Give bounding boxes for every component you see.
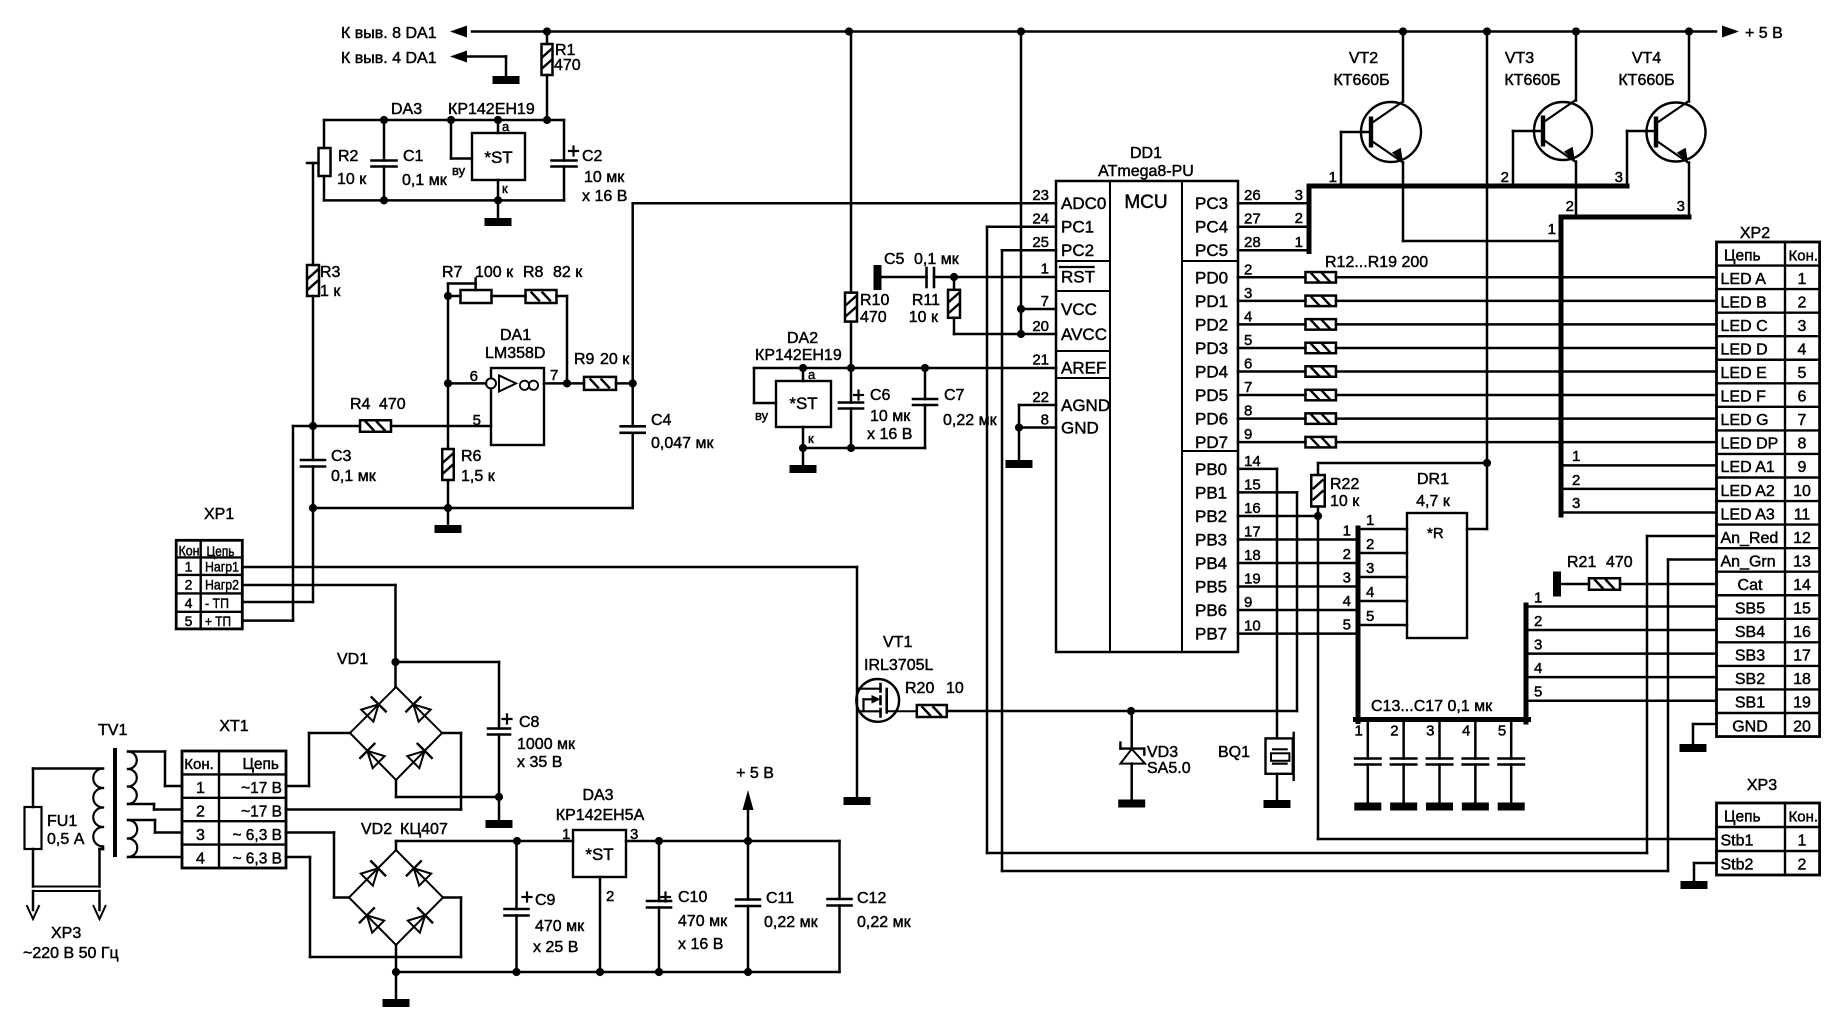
wire ADC0 sense line <box>633 203 1056 383</box>
svg-text:a: a <box>502 119 510 134</box>
svg-text:x 35 В: x 35 В <box>517 754 562 771</box>
svg-text:1: 1 <box>1354 723 1362 740</box>
connector XP1 <box>176 506 242 629</box>
svg-text:19: 19 <box>1244 571 1261 588</box>
wire PC1 to An_Red <box>987 227 1717 853</box>
svg-text:VT3: VT3 <box>1505 50 1534 67</box>
svg-text:SB4: SB4 <box>1735 624 1765 641</box>
microcontroller DD1 ATmega8-PU <box>1056 145 1238 652</box>
svg-text:25: 25 <box>1032 234 1049 251</box>
svg-text:9: 9 <box>1798 459 1807 476</box>
capacitor C5 0,1 мк with ground <box>874 251 960 290</box>
svg-text:R20: R20 <box>905 680 934 697</box>
svg-text:100 к: 100 к <box>475 264 514 281</box>
svg-text:AVCC: AVCC <box>1061 325 1107 344</box>
svg-text:4: 4 <box>1798 341 1807 358</box>
svg-text:К выв. 8 DA1: К выв. 8 DA1 <box>341 25 437 42</box>
svg-text:2: 2 <box>185 577 193 593</box>
svg-text:PC2: PC2 <box>1061 241 1094 260</box>
svg-text:R3: R3 <box>320 264 341 281</box>
ground <box>1264 800 1291 808</box>
svg-text:4,7 к: 4,7 к <box>1416 493 1451 510</box>
svg-text:КТ660Б: КТ660Б <box>1333 72 1389 89</box>
svg-text:VD1: VD1 <box>337 651 368 668</box>
svg-text:SB3: SB3 <box>1735 648 1765 665</box>
svg-text:MCU: MCU <box>1124 192 1167 213</box>
svg-text:3: 3 <box>1534 637 1542 654</box>
svg-text:15: 15 <box>1244 476 1261 493</box>
wire DA2 cathode wire <box>799 444 925 452</box>
resistor R16 200 (LED E) <box>1238 366 1717 377</box>
svg-text:An_Grn: An_Grn <box>1721 553 1776 570</box>
svg-text:14: 14 <box>1793 577 1811 594</box>
svg-text:19: 19 <box>1793 695 1811 712</box>
svg-text:к: к <box>502 181 508 196</box>
ground <box>486 797 513 828</box>
svg-text:R12...R19 200: R12...R19 200 <box>1325 254 1428 271</box>
svg-text:C8: C8 <box>519 714 540 731</box>
wire pin 7 <box>544 379 571 387</box>
svg-text:470: 470 <box>860 309 887 326</box>
capacitor C17 0,1 мк <box>1498 722 1524 803</box>
wire PC2 to An_Grn <box>1002 250 1717 871</box>
svg-text:XT1: XT1 <box>219 718 248 735</box>
svg-text:10 к: 10 к <box>909 309 939 326</box>
svg-text:24: 24 <box>1032 211 1049 228</box>
svg-text:- ТП: - ТП <box>205 595 229 611</box>
svg-text:1: 1 <box>1534 590 1542 607</box>
resistor R11 10 к <box>909 277 960 334</box>
capacitor C15 0,1 мк <box>1426 722 1452 803</box>
svg-text:9: 9 <box>1244 426 1252 443</box>
svg-text:~ 6,3 В: ~ 6,3 В <box>232 827 282 844</box>
svg-text:1: 1 <box>1329 169 1337 186</box>
svg-text:ву: ву <box>755 408 769 423</box>
capacitor C12 0,22 мк <box>828 841 912 972</box>
svg-text:Цепь: Цепь <box>1724 247 1761 264</box>
wire node a (top wire of DA3 cell) <box>324 116 564 124</box>
svg-text:PD4: PD4 <box>1195 362 1228 381</box>
svg-text:10 к: 10 к <box>337 171 367 188</box>
wire Stb2 to ground <box>1694 863 1717 881</box>
svg-text:10: 10 <box>1244 618 1261 635</box>
capacitor C2 10 мк x 16 В <box>552 120 628 205</box>
wire VD1 minus output <box>396 780 503 801</box>
svg-text:0,1 мк: 0,1 мк <box>402 172 448 189</box>
svg-text:11: 11 <box>1794 506 1811 523</box>
svg-text:SB2: SB2 <box>1735 671 1765 688</box>
svg-text:x 16 В: x 16 В <box>582 188 627 205</box>
svg-text:28: 28 <box>1244 234 1261 251</box>
svg-text:3: 3 <box>1366 560 1374 577</box>
voltage regulator DA3 КР142ЕН5А <box>556 787 645 972</box>
svg-text:20: 20 <box>1032 318 1049 335</box>
capacitor C1 0,1 мк <box>372 120 448 200</box>
svg-text:0,047 мк: 0,047 мк <box>651 435 714 452</box>
svg-text:1: 1 <box>1295 234 1303 251</box>
ground <box>383 972 410 1007</box>
svg-text:PB5: PB5 <box>1195 578 1227 597</box>
transistor VT4 КТ660Б <box>1615 32 1706 218</box>
capacitor C4 0,047 мк <box>621 383 715 508</box>
svg-text:C6: C6 <box>870 387 891 404</box>
svg-text:10: 10 <box>946 680 964 697</box>
svg-text:к: к <box>808 431 814 446</box>
node VT1 gate net junction <box>1127 707 1135 715</box>
svg-text:10 к: 10 к <box>1330 493 1360 510</box>
svg-text:PD2: PD2 <box>1195 315 1228 334</box>
svg-text:Нагр2: Нагр2 <box>205 577 239 593</box>
svg-text:18: 18 <box>1793 671 1811 688</box>
wire RST line <box>934 273 1056 281</box>
svg-text:4: 4 <box>185 595 193 611</box>
wire AREF reference rail <box>754 364 1056 372</box>
MCU left pin labels <box>1032 187 1110 437</box>
resistor network DR1 4,7 к <box>1407 463 1487 638</box>
svg-text:x 16 В: x 16 В <box>867 426 912 443</box>
svg-text:C10: C10 <box>678 889 707 906</box>
svg-text:10 мк: 10 мк <box>584 169 625 186</box>
svg-text:PC5: PC5 <box>1195 241 1228 260</box>
svg-text:R9: R9 <box>574 351 595 368</box>
svg-text:DA3: DA3 <box>582 787 613 804</box>
svg-text:DA3: DA3 <box>391 101 422 118</box>
svg-text:DR1: DR1 <box>1417 471 1449 488</box>
svg-text:7: 7 <box>1041 293 1049 310</box>
svg-text:Цепь: Цепь <box>242 756 279 773</box>
wire R7/R6 vertical <box>444 296 452 449</box>
svg-text:XP1: XP1 <box>204 506 234 523</box>
resistor R9 20 к <box>567 351 637 390</box>
svg-text:2: 2 <box>1295 210 1303 227</box>
wire +ТП <box>242 426 293 621</box>
svg-text:VT2: VT2 <box>1349 50 1378 67</box>
svg-text:3: 3 <box>1244 285 1252 302</box>
transistor VT1 IRL3705L <box>856 634 933 722</box>
svg-text:Кон.: Кон. <box>1789 809 1819 826</box>
svg-text:C9: C9 <box>535 892 556 909</box>
svg-text:IRL3705L: IRL3705L <box>864 657 933 674</box>
ground <box>485 200 512 226</box>
svg-text:16: 16 <box>1244 500 1261 517</box>
connector XT1 <box>182 718 286 868</box>
wire cathode bottom wire <box>324 196 564 204</box>
svg-text:AREF: AREF <box>1061 359 1106 378</box>
svg-text:22: 22 <box>1032 389 1049 406</box>
svg-text:PD6: PD6 <box>1195 409 1228 428</box>
svg-text:VT1: VT1 <box>883 634 912 651</box>
rectifier bridge VD2 КЦ407 <box>349 821 448 945</box>
wire XT1 pin2 to VD1 <box>286 733 461 810</box>
wire PC5 digit select 1 <box>1238 234 1309 251</box>
capacitor C14 0,1 мк <box>1390 722 1416 803</box>
capacitor C7 0,22 мк <box>913 368 998 448</box>
wire secondary 2 connections <box>128 820 182 857</box>
voltage reference DA3 *ST <box>451 119 525 200</box>
svg-text:~220 В 50 Гц: ~220 В 50 Гц <box>23 945 119 962</box>
capacitor C9 470 мк x 25 В <box>505 841 586 972</box>
resistor R15 200 (LED D) <box>1238 343 1717 354</box>
svg-text:3: 3 <box>1798 318 1807 335</box>
svg-text:ADC0: ADC0 <box>1061 194 1106 213</box>
op-amp DA1 LM358D <box>470 327 559 445</box>
svg-text:2: 2 <box>1566 198 1574 215</box>
svg-text:8: 8 <box>1244 402 1252 419</box>
svg-text:*ST: *ST <box>585 845 613 864</box>
svg-text:6: 6 <box>1798 389 1807 406</box>
resistor R18 200 (LED G) <box>1238 413 1717 424</box>
svg-text:1: 1 <box>1572 448 1580 465</box>
wire XT1 pin4 to VD2 <box>286 857 461 957</box>
svg-text:SB1: SB1 <box>1735 695 1765 712</box>
svg-text:КЦ407: КЦ407 <box>400 821 448 838</box>
svg-text:LED F: LED F <box>1721 389 1767 406</box>
svg-text:5: 5 <box>1244 332 1252 349</box>
svg-text:1,5 к: 1,5 к <box>461 468 496 485</box>
wire XP2 GND to ground <box>1693 724 1717 744</box>
svg-text:КТ660Б: КТ660Б <box>1618 72 1674 89</box>
ground <box>1498 803 1525 811</box>
svg-text:C11: C11 <box>766 890 794 907</box>
svg-text:10 мк: 10 мк <box>870 408 911 425</box>
svg-text:5: 5 <box>1798 365 1807 382</box>
wire digit select group bus <box>1309 186 1627 252</box>
svg-text:Cat: Cat <box>1738 577 1763 594</box>
svg-text:PD3: PD3 <box>1195 339 1228 358</box>
svg-text:LED C: LED C <box>1721 318 1768 335</box>
svg-text:0,22 мк: 0,22 мк <box>857 914 912 931</box>
label C13...C17 0,1 мк <box>1371 698 1493 715</box>
resistor R6 1,5 к <box>442 448 495 508</box>
wire keyboard group bus <box>1356 528 1529 722</box>
svg-text:+ ТП: + ТП <box>205 613 231 629</box>
MCU right pin labels <box>1195 187 1261 643</box>
resistor R10 470 <box>845 32 889 369</box>
transistor VT3 КТ660Б <box>1501 32 1592 218</box>
svg-text:PB0: PB0 <box>1195 460 1227 479</box>
svg-text:10: 10 <box>1793 483 1811 500</box>
svg-text:0,1 мк: 0,1 мк <box>331 468 377 485</box>
ground <box>1118 800 1145 808</box>
svg-text:a: a <box>808 367 816 382</box>
capacitor C10 470 мк x 16 В <box>647 841 728 972</box>
wire analog ground rail <box>309 504 633 512</box>
svg-text:VCC: VCC <box>1061 300 1097 319</box>
svg-text:КР142ЕН19: КР142ЕН19 <box>755 347 842 364</box>
wire LED A1 line <box>1563 448 1717 465</box>
svg-text:3: 3 <box>1572 495 1580 512</box>
svg-text:2: 2 <box>1501 169 1509 186</box>
svg-text:x 16 В: x 16 В <box>678 936 723 953</box>
resistor R1 470 <box>542 32 581 121</box>
node R7 left junction <box>444 292 452 300</box>
wire LED A3 line <box>1563 495 1717 513</box>
wire mains cable <box>27 887 106 920</box>
capacitor C6 10 мк x 16 В <box>839 368 912 448</box>
svg-text:3: 3 <box>1677 198 1685 215</box>
svg-text:LED E: LED E <box>1721 365 1767 382</box>
resistor R22 10 к <box>1311 463 1360 516</box>
svg-text:C3: C3 <box>331 448 352 465</box>
svg-text:C13...C17 0,1 мк: C13...C17 0,1 мк <box>1371 698 1493 715</box>
svg-text:BQ1: BQ1 <box>1218 744 1250 761</box>
wire VD2 minus / ground rail <box>392 945 840 976</box>
wire secondary 1 connections <box>128 752 182 810</box>
wire pin 6 <box>448 382 486 385</box>
svg-text:ATmega8-PU: ATmega8-PU <box>1098 163 1194 180</box>
wire DR1 pin wires from bus <box>1359 512 1407 625</box>
fuse FU1 0,5 А <box>25 769 85 887</box>
svg-text:470: 470 <box>1606 554 1633 571</box>
resistor R20 10 <box>905 680 964 717</box>
resistor R17 200 (LED F) <box>1238 390 1717 401</box>
svg-text:C1: C1 <box>403 148 424 165</box>
svg-text:PB6: PB6 <box>1195 601 1227 620</box>
wire R22 pull-up to +5V <box>1318 32 1491 468</box>
svg-text:C5: C5 <box>884 251 905 268</box>
label +5 В with arrow <box>1722 25 1783 42</box>
svg-text:R4: R4 <box>350 396 371 413</box>
svg-text:PB2: PB2 <box>1195 507 1227 526</box>
svg-text:3: 3 <box>1295 187 1303 204</box>
svg-text:470 мк: 470 мк <box>678 913 728 930</box>
svg-text:8: 8 <box>1798 436 1807 453</box>
transistor VT2 КТ660Б <box>1329 32 1559 242</box>
svg-text:3: 3 <box>196 827 205 844</box>
ground <box>844 797 871 805</box>
svg-text:PC4: PC4 <box>1195 218 1228 237</box>
svg-text:PD1: PD1 <box>1195 292 1228 311</box>
resistor R8 82 к <box>523 264 583 383</box>
svg-text:4: 4 <box>1534 660 1542 677</box>
buzzer BQ1 <box>1218 733 1294 800</box>
svg-text:LED DP: LED DP <box>1721 436 1779 453</box>
label К выв. 4 DA1 with arrow <box>341 50 506 67</box>
ground <box>1462 803 1489 811</box>
svg-text:PB1: PB1 <box>1195 483 1227 502</box>
wire anode group bus <box>1561 217 1689 515</box>
resistor R13 200 (LED B) <box>1238 296 1717 307</box>
diode VD3 SA5.0 <box>1120 711 1190 800</box>
svg-text:470: 470 <box>379 396 406 413</box>
label DA3 КР142ЕН19 <box>391 101 535 118</box>
label XP3 mains <box>23 925 119 962</box>
resistor R4 470 <box>309 396 491 432</box>
svg-text:7: 7 <box>1244 379 1252 396</box>
connector XP2 <box>1717 225 1820 737</box>
svg-text:0,22 мк: 0,22 мк <box>943 412 998 429</box>
wire LED A2 line <box>1563 472 1717 489</box>
svg-text:4: 4 <box>1343 593 1351 610</box>
svg-text:2: 2 <box>196 804 205 821</box>
svg-text:ву: ву <box>452 163 466 178</box>
svg-text:1: 1 <box>1366 512 1374 529</box>
ground <box>1426 803 1453 811</box>
wire VD1 plus output <box>391 658 499 687</box>
svg-text:5: 5 <box>185 613 193 629</box>
wire VD2 plus rail <box>396 837 573 850</box>
svg-text:Stb1: Stb1 <box>1721 833 1754 850</box>
svg-text:*R: *R <box>1427 525 1444 542</box>
svg-text:1000 мк: 1000 мк <box>517 736 576 753</box>
svg-text:2: 2 <box>1572 472 1580 489</box>
svg-text:16: 16 <box>1793 624 1811 641</box>
svg-text:18: 18 <box>1244 547 1261 564</box>
svg-text:15: 15 <box>1793 601 1811 618</box>
svg-text:1 к: 1 к <box>320 283 341 300</box>
wire PB0 to BQ1 <box>1238 469 1277 738</box>
svg-text:R8: R8 <box>523 264 544 281</box>
resistor R21 470 <box>1561 554 1717 590</box>
wire SB bus exits to XP2 <box>1526 590 1717 701</box>
svg-text:5: 5 <box>1498 723 1506 740</box>
svg-text:Кон: Кон <box>179 543 200 559</box>
svg-text:1: 1 <box>1798 271 1807 288</box>
svg-text:SA5.0: SA5.0 <box>1147 760 1191 777</box>
svg-text:8: 8 <box>1041 412 1049 429</box>
svg-text:LED B: LED B <box>1721 294 1767 311</box>
svg-text:+ 5 В: + 5 В <box>736 765 774 782</box>
resistor R3 1 к <box>307 163 341 426</box>
wire XT1 pin3 to VD2 <box>286 833 349 898</box>
ground <box>1006 460 1033 468</box>
svg-text:1: 1 <box>185 559 193 575</box>
svg-text:1: 1 <box>1798 833 1807 850</box>
svg-text:2: 2 <box>1798 857 1807 874</box>
resistor R14 200 (LED C) <box>1238 319 1717 330</box>
capacitor C3 0,1 мк <box>293 426 377 508</box>
node +5V junction dots on rail <box>543 27 1693 35</box>
svg-text:LED D: LED D <box>1721 341 1768 358</box>
svg-text:C12: C12 <box>857 890 886 907</box>
ground <box>1680 744 1707 752</box>
svg-text:DD1: DD1 <box>1130 145 1162 162</box>
svg-text:13: 13 <box>1793 553 1811 570</box>
wire VCC line <box>1017 32 1056 335</box>
svg-text:XP2: XP2 <box>1740 225 1770 242</box>
svg-text:2: 2 <box>1534 613 1542 630</box>
svg-text:0,5 А: 0,5 А <box>47 831 85 848</box>
svg-text:PB7: PB7 <box>1195 625 1227 644</box>
svg-text:470: 470 <box>554 57 581 74</box>
svg-text:КР142ЕН5А: КР142ЕН5А <box>556 807 645 824</box>
svg-text:5: 5 <box>1534 684 1542 701</box>
label К выв. 8 DA1 with arrow <box>341 25 467 42</box>
svg-text:LED A: LED A <box>1721 271 1767 288</box>
svg-text:1: 1 <box>1343 523 1351 540</box>
wire PB1 to VT1 gate <box>947 492 1297 711</box>
svg-text:Цепь: Цепь <box>207 543 235 559</box>
svg-text:LED A3: LED A3 <box>1721 506 1775 523</box>
svg-text:4: 4 <box>196 850 205 867</box>
wire XT1 pin1 to VD1 <box>286 733 350 786</box>
potentiometer R2 10 к <box>307 120 367 200</box>
svg-text:GND: GND <box>1732 718 1768 735</box>
svg-text:VD3: VD3 <box>1147 744 1178 761</box>
svg-text:4: 4 <box>1462 723 1470 740</box>
svg-text:*ST: *ST <box>789 394 817 413</box>
svg-text:7: 7 <box>550 367 558 384</box>
svg-text:1: 1 <box>196 780 205 797</box>
svg-text:7: 7 <box>1798 412 1807 429</box>
wire PC4 digit select 2 <box>1238 210 1309 227</box>
svg-text:0,22 мк: 0,22 мк <box>764 914 819 931</box>
svg-text:КТ660Б: КТ660Б <box>1504 72 1560 89</box>
label +5 В output arrow <box>736 765 774 841</box>
svg-text:LED A1: LED A1 <box>1721 459 1775 476</box>
ground <box>1390 803 1417 811</box>
svg-text:6: 6 <box>1244 355 1252 372</box>
